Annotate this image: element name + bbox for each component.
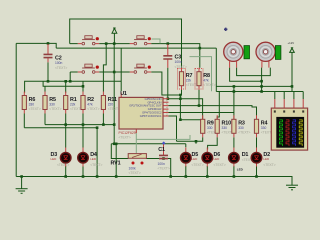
resistor R9	[201, 115, 220, 137]
wire D3 cathode	[65, 166, 67, 177]
wire chip pin1 to R9	[169, 99, 203, 120]
wire 12V feed	[291, 52, 293, 91]
svg-text:100n: 100n	[55, 61, 63, 65]
wire pot wiper light	[135, 131, 137, 154]
wire R1 to D3	[65, 114, 67, 148]
wire R9 bottom	[186, 137, 203, 147]
wire D4 cathode	[82, 166, 84, 177]
wire R2 drop	[82, 81, 84, 93]
svg-text:LED: LED	[90, 157, 97, 161]
wire scope drops	[275, 92, 303, 100]
svg-text:220: 220	[108, 102, 114, 106]
svg-text:U1: U1	[120, 91, 127, 97]
svg-text:GP4/CLKIN: GP4/CLKIN	[147, 100, 161, 104]
svg-text:+12V: +12V	[288, 41, 295, 45]
button SW4	[130, 64, 151, 73]
wire gnd rail upper	[16, 43, 56, 48]
wire light step right	[190, 57, 212, 92]
chip U1 PIC12F629	[112, 91, 168, 140]
svg-text:LED: LED	[214, 157, 221, 161]
svg-text:22k: 22k	[186, 79, 192, 83]
wire R11 bottom	[102, 114, 104, 125]
LED D6	[202, 148, 226, 168]
svg-text:RV1: RV1	[111, 161, 121, 167]
wire R5 riser	[44, 86, 46, 93]
svg-text:<TEXT>: <TEXT>	[108, 107, 120, 111]
motor M1 terminal bar	[244, 46, 250, 59]
wire motor1 right leg	[237, 68, 271, 76]
wire left vertical	[15, 43, 17, 176]
ground symbol left	[16, 177, 28, 194]
svg-text:100n: 100n	[158, 162, 166, 166]
wire R2 to D4	[82, 114, 84, 148]
resistor R4	[254, 115, 273, 137]
wire R7 to R9 loop	[180, 119, 202, 121]
svg-text:C1: C1	[158, 147, 165, 153]
power arrow +5V	[112, 28, 117, 44]
svg-text:100n: 100n	[175, 60, 183, 64]
resistor R10	[215, 115, 234, 137]
resistor R7	[178, 68, 199, 90]
LED D3	[51, 148, 72, 168]
button SW3	[78, 64, 99, 73]
wire lower bus 2	[24, 127, 97, 129]
ground symbol right	[286, 177, 298, 190]
wire motor2 left leg	[261, 68, 263, 92]
wire R5 bottom	[44, 114, 46, 125]
motor M1	[224, 42, 243, 67]
svg-text:GP5/T1CKI/OSC1: GP5/T1CKI/OSC1	[140, 114, 162, 118]
svg-text:GP4/T1G/OSC2: GP4/T1G/OSC2	[142, 111, 162, 115]
svg-text:47k: 47k	[203, 79, 209, 83]
svg-text:<TEXT>: <TEXT>	[175, 65, 187, 69]
wire motor1 left leg	[230, 68, 262, 82]
svg-text:<TEXT>: <TEXT>	[263, 163, 275, 167]
LED D5	[181, 148, 204, 168]
wire row2 bus	[70, 72, 180, 95]
power arrow +12V	[290, 48, 295, 53]
wire mesh bus lower	[216, 91, 303, 93]
svg-text:<TEXT>: <TEXT>	[49, 107, 61, 111]
LED D4	[78, 148, 103, 168]
potentiometer RV1	[111, 154, 147, 176]
svg-text:LED: LED	[51, 157, 58, 161]
svg-text:<TEXT>: <TEXT>	[87, 107, 99, 111]
wire dark bus Q	[111, 143, 186, 145]
wire R1 drop	[65, 81, 67, 93]
wire bus B	[43, 81, 83, 86]
svg-text:D1: D1	[242, 152, 249, 158]
wire gnd rail lower level	[56, 47, 216, 49]
wire R8 bottom	[198, 90, 200, 106]
wire pot feed	[111, 144, 128, 159]
resistor R6	[22, 92, 41, 114]
wire mesh to R10	[217, 92, 219, 120]
svg-text:100k: 100k	[129, 166, 137, 170]
svg-text:22k: 22k	[70, 102, 76, 106]
motor M2	[256, 42, 275, 67]
button SW2	[130, 36, 151, 45]
svg-text:<TEXT>: <TEXT>	[129, 171, 141, 175]
wire R10 to D6	[208, 137, 218, 149]
wire power vertical	[113, 44, 115, 144]
wire R4 to D2	[256, 137, 258, 147]
svg-text:330: 330	[207, 126, 213, 130]
motor M2 terminal bar	[275, 46, 281, 60]
svg-text:330: 330	[222, 126, 228, 130]
capacitor C2	[44, 44, 68, 70]
wire R6 bottom	[23, 114, 25, 128]
svg-text:47k: 47k	[87, 102, 93, 106]
svg-text:330: 330	[261, 126, 267, 130]
wire row2 left end	[69, 72, 71, 81]
wire mesh to R3	[233, 86, 235, 119]
svg-text:LED: LED	[263, 157, 270, 161]
resistor R5	[43, 92, 62, 114]
resistor R8	[195, 68, 216, 90]
svg-text:330: 330	[29, 102, 35, 106]
svg-text:LED: LED	[237, 168, 244, 172]
svg-text:PIC12F629: PIC12F629	[119, 131, 136, 135]
resistor R11	[101, 92, 120, 114]
origin marker blue diamond	[162, 141, 166, 145]
wire button rail	[70, 44, 200, 68]
resistor R2	[81, 92, 100, 114]
wire dark bus P	[177, 141, 197, 144]
wire chip pin1 top	[120, 48, 122, 91]
wire VSS drop	[115, 144, 117, 177]
svg-text:GP5/OSC1/IN: GP5/OSC1/IN	[145, 97, 162, 101]
wire R3 to D1	[233, 137, 235, 147]
svg-text:330: 330	[49, 102, 55, 106]
button SW1	[78, 36, 99, 45]
svg-text:<TEXT>: <TEXT>	[55, 66, 67, 70]
svg-text:<TEXT>: <TEXT>	[158, 167, 170, 171]
capacitor C3	[163, 44, 187, 69]
resistor R3	[232, 115, 251, 137]
wire mesh bus upper	[216, 85, 292, 87]
wire gnd drop left	[96, 128, 98, 177]
origin marker blue cross	[224, 28, 227, 31]
svg-text:<TEXT>: <TEXT>	[57, 163, 69, 167]
wire lower bus 1	[45, 124, 114, 126]
svg-text:<TEXT>: <TEXT>	[203, 83, 215, 87]
wire LED cathodes right	[186, 166, 257, 177]
wire bus A	[25, 81, 122, 93]
oscilloscope graph	[271, 99, 307, 150]
svg-text:<TEXT>: <TEXT>	[186, 83, 198, 87]
wire chip pin3 to R4	[169, 106, 257, 120]
svg-text:GP2/T0CKI/AN/T1SC OUT: GP2/T0CKI/AN/T1SC OUT	[129, 104, 162, 108]
wire chip pin5 to R3 line	[169, 112, 234, 114]
svg-text:<TEXT>: <TEXT>	[29, 107, 41, 111]
svg-text:<TEXT>: <TEXT>	[192, 163, 204, 167]
svg-text:GP3/MCLR: GP3/MCLR	[148, 107, 162, 111]
svg-text:LED: LED	[192, 157, 199, 161]
wire pot right to gnd	[146, 159, 171, 177]
wire light bus	[136, 135, 190, 139]
wire C3 bottom drop	[167, 68, 169, 99]
svg-text:<TEXT>: <TEXT>	[90, 163, 102, 167]
wire light step button	[152, 39, 161, 43]
LED D2	[251, 148, 276, 168]
wire top frame	[70, 19, 182, 68]
LED D1	[229, 148, 254, 172]
svg-text:<TEXT>: <TEXT>	[214, 163, 226, 167]
wire R7 bottom	[180, 90, 181, 120]
svg-text:<TEXT>: <TEXT>	[238, 131, 250, 135]
wire R11 feed jog	[103, 44, 106, 92]
wire mesh feed	[215, 48, 217, 91]
resistor R1	[64, 92, 83, 114]
svg-text:330: 330	[238, 126, 244, 130]
wire C2 bottom	[47, 62, 49, 81]
wire chip pin6 down	[169, 116, 177, 141]
svg-text:<TEXT>: <TEXT>	[119, 136, 131, 140]
capacitor C1	[158, 144, 170, 170]
wire ground bus	[16, 177, 292, 186]
